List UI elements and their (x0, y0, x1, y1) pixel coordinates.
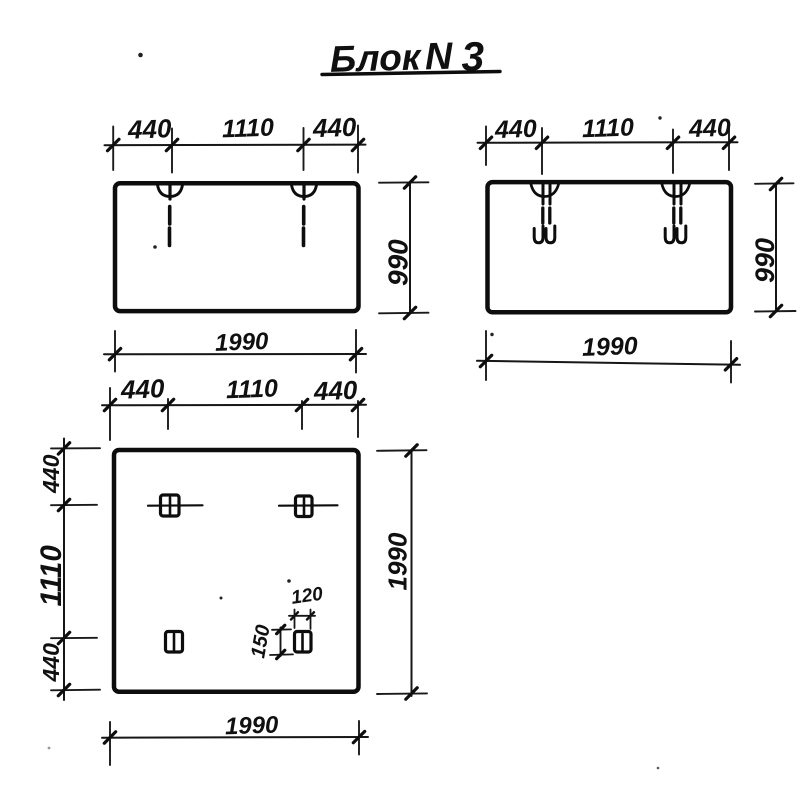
svg-text:440: 440 (126, 113, 172, 145)
svg-text:1110: 1110 (222, 114, 275, 144)
svg-text:990: 990 (383, 239, 414, 286)
svg-text:990: 990 (750, 238, 780, 283)
svg-text:1110: 1110 (35, 545, 68, 607)
svg-text:440: 440 (311, 112, 357, 144)
svg-text:440: 440 (494, 115, 538, 144)
svg-text:440: 440 (312, 375, 358, 407)
svg-text:1110: 1110 (226, 374, 279, 404)
svg-text:440: 440 (38, 643, 64, 683)
svg-text:1990: 1990 (215, 328, 270, 357)
svg-text:1990: 1990 (582, 332, 639, 362)
svg-text:440: 440 (688, 114, 732, 143)
svg-text:440: 440 (38, 454, 64, 494)
svg-text:440: 440 (119, 373, 165, 405)
svg-text:120: 120 (290, 584, 325, 609)
svg-text:1990: 1990 (225, 711, 280, 740)
svg-text:1110: 1110 (582, 113, 635, 143)
svg-text:1990: 1990 (383, 532, 413, 590)
